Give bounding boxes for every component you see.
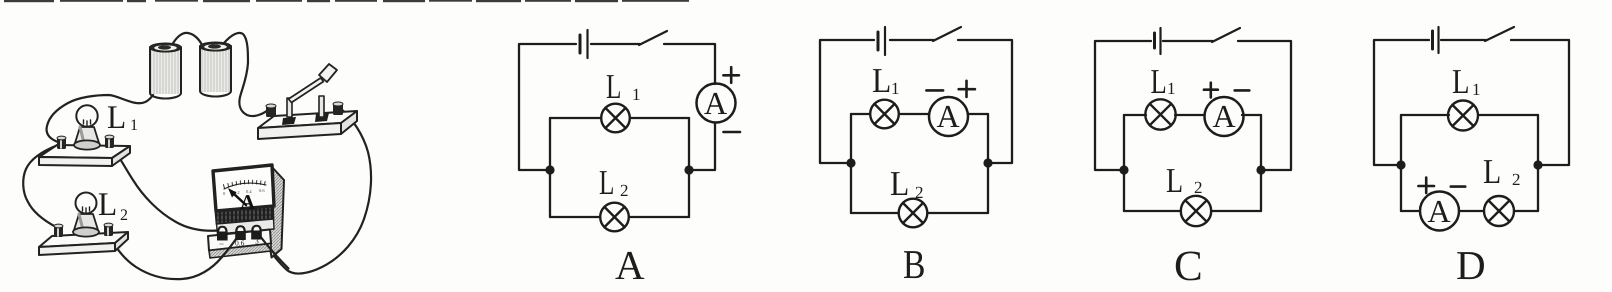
ammeter middle post xyxy=(235,225,246,240)
battery BT-A xyxy=(580,30,588,58)
ammeter left post xyxy=(217,226,228,241)
battery BT-D xyxy=(1433,27,1439,53)
option letter D xyxy=(1457,252,1484,279)
node left (B) xyxy=(846,158,855,167)
label L2 (C) xyxy=(1167,169,1202,193)
posts strip xyxy=(217,219,275,234)
option letter B xyxy=(904,251,924,278)
wire overlay: L2 wire tail onto meter front to middle post xyxy=(220,232,241,260)
node right (A) xyxy=(684,165,693,174)
label + (C) xyxy=(1204,83,1218,98)
slot left xyxy=(282,117,296,125)
label L1 (A) xyxy=(607,75,640,100)
parallel branch wires C xyxy=(1124,115,1261,211)
battery cell B1 xyxy=(150,43,181,98)
wire overlay: switch wire tail across meter front to right post xyxy=(257,232,289,269)
cut-off text remnants top edge xyxy=(4,0,689,2)
wire loop D xyxy=(1374,40,1569,165)
lamp L1 (D) xyxy=(1448,101,1478,131)
lamp L2 (C) xyxy=(1181,196,1211,226)
wire lamp L1 right post to ammeter left post xyxy=(112,147,224,231)
lamp L1 (A) xyxy=(601,104,630,133)
switch S-A xyxy=(639,31,667,45)
label − (B) xyxy=(926,89,943,92)
wire switch right post to ammeter right post xyxy=(258,108,371,274)
lamp L2 (A) xyxy=(600,203,629,232)
meter scale arc and ticks xyxy=(224,183,266,189)
lamp L1 bulb xyxy=(74,105,100,149)
parallel branch wires D xyxy=(1401,115,1538,211)
wire top/left/right loop A xyxy=(519,44,715,170)
label L1 (D) xyxy=(1453,70,1480,95)
wire loop B xyxy=(820,40,1012,163)
label − (C) xyxy=(1235,89,1250,92)
lamp L1 left post xyxy=(57,136,66,149)
label L1 (illustration) xyxy=(108,106,137,130)
label L1 (C) xyxy=(1151,70,1174,94)
scale panel frame xyxy=(213,165,274,211)
lamp L2 (D) xyxy=(1484,196,1514,226)
switch S-C xyxy=(1212,28,1240,42)
option letter A xyxy=(615,252,644,279)
label L2 (A) xyxy=(600,171,628,196)
slot right xyxy=(315,113,329,122)
wire lamp L2 right post to ammeter middle post xyxy=(111,231,241,279)
parallel branch wires A xyxy=(550,118,689,217)
lamp L1 base board xyxy=(39,145,130,166)
right side face xyxy=(270,166,285,258)
lamp L2 base board xyxy=(39,232,128,255)
ammeter meter body xyxy=(208,165,284,258)
grille xyxy=(216,207,274,225)
switch S-B xyxy=(933,27,961,41)
battery BT-C xyxy=(1155,28,1161,54)
battery BT-B xyxy=(878,27,885,55)
label + (A) xyxy=(723,67,739,83)
meter letter A xyxy=(240,195,255,209)
parallel branch wires B xyxy=(851,114,988,213)
label L2 (D) xyxy=(1484,160,1520,185)
label L1 (B) xyxy=(873,69,899,94)
wire battery2 to switch left post xyxy=(224,33,268,116)
option letter C xyxy=(1176,252,1201,281)
front face xyxy=(208,230,271,251)
lamp L2 right post xyxy=(104,223,113,236)
meter terminal labels xyxy=(219,243,223,245)
switch S1 left terminal xyxy=(266,104,276,117)
wire loop C xyxy=(1095,41,1291,170)
node left (C) xyxy=(1119,165,1128,174)
lamp L2 (B) xyxy=(899,199,928,228)
ammeter A-D xyxy=(1420,192,1459,231)
lamp L1 (C) xyxy=(1145,99,1175,129)
label + (D) xyxy=(1418,178,1434,194)
label − (D) xyxy=(1451,185,1465,188)
lamp L2 left post xyxy=(54,224,63,237)
node right (B) xyxy=(983,158,992,167)
label L2 (illustration) xyxy=(99,193,127,220)
switch S1 lever xyxy=(287,64,337,117)
wire battery1 bottom to lamp L1 left post xyxy=(47,95,153,142)
ammeter A-C xyxy=(1205,97,1244,136)
node right (C) xyxy=(1256,165,1265,174)
ammeter A-B xyxy=(929,97,968,136)
label − (A) xyxy=(724,131,741,134)
lamp L1 right post xyxy=(105,135,114,148)
node right (D) xyxy=(1533,160,1542,169)
meter needle xyxy=(234,194,246,205)
lamp L2 bulb xyxy=(73,193,99,237)
switch S1 right terminal xyxy=(333,102,343,115)
lamp L1 (B) xyxy=(870,100,899,129)
wire lamp L1 left post to lamp L2 left post xyxy=(23,145,58,227)
battery cell B2 xyxy=(200,42,231,96)
wire battery1 to battery2 (series link) xyxy=(172,33,202,45)
node left (D) xyxy=(1396,160,1405,169)
node left (A) xyxy=(545,165,554,174)
label + (B) xyxy=(959,81,975,97)
ammeter A-A xyxy=(697,84,736,123)
ammeter right post xyxy=(251,225,262,240)
label L2 (B) xyxy=(891,172,923,198)
switch S-D xyxy=(1485,27,1514,41)
knife switch S1 base xyxy=(258,111,357,139)
